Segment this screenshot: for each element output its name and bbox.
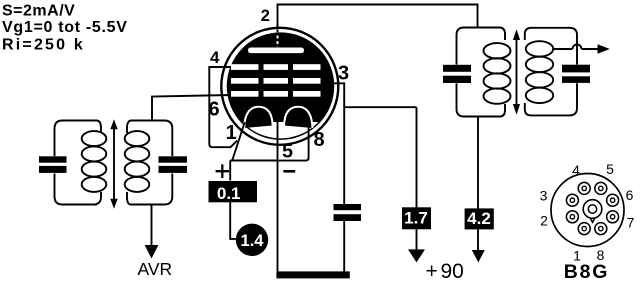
wire transformer secondary to grid (152, 95, 231, 122)
IF transformer T2 right loop (525, 28, 577, 116)
svg-text:Ri=250 k: Ri=250 k (2, 37, 85, 54)
anode lead dashed (white on disc) (277, 36, 279, 48)
pin 8 lead (278, 124, 309, 161)
capacitor C1 (39, 156, 67, 162)
tube anode plate bar (248, 48, 304, 54)
voltage box 4.2 (465, 208, 494, 229)
socket pin 5 (595, 182, 607, 194)
svg-text:2: 2 (261, 7, 270, 25)
current meter 1.4 (236, 224, 268, 256)
arrow 1.7 down (416, 229, 418, 251)
wire anode pin2 to top rail to right transformer (278, 5, 478, 29)
plus sign (216, 164, 229, 178)
output arrow wire with hop (553, 45, 598, 50)
svg-text:5: 5 (606, 161, 614, 177)
capacitor C2 (159, 156, 188, 162)
voltage box 0.1 (209, 181, 258, 202)
tube grid row 3 (231, 91, 259, 97)
svg-text:7: 7 (627, 215, 635, 231)
svg-text:1: 1 (226, 122, 237, 144)
wire branch to 1.7 (344, 107, 416, 207)
coil L1 (82, 131, 107, 146)
socket pin 6 (607, 194, 619, 206)
coil L3 (484, 43, 511, 58)
socket pin 7 (607, 211, 619, 223)
capacitor C4 (443, 65, 471, 72)
IF transformer T1 right loop (127, 121, 172, 205)
cathode arch left (244, 107, 272, 128)
anode lead dashed (outside disc) (277, 24, 279, 35)
svg-text:3: 3 (540, 188, 548, 204)
voltage box 1.7 (402, 207, 431, 229)
socket pin 2 (566, 211, 578, 223)
cathode arch right (284, 107, 312, 128)
svg-text:0.1: 0.1 (217, 184, 241, 203)
pin 1 lead (232, 122, 245, 161)
svg-text:4.2: 4.2 (467, 209, 491, 228)
wire cathode horizontal (230, 160, 278, 162)
tube cathode white band (242, 122, 320, 139)
coil L4 (526, 41, 553, 56)
minus sign (283, 170, 295, 173)
ground rail (276, 271, 349, 278)
arrow 4.2 down (477, 229, 479, 252)
svg-text:Vg1=0 tot -5.5V: Vg1=0 tot -5.5V (2, 19, 128, 36)
tube grid row 2 (231, 78, 259, 84)
coupling arrow T1 (113, 129, 115, 199)
svg-text:B8G: B8G (564, 261, 610, 283)
B8G socket outline (551, 174, 624, 247)
wire capacitor to rail (343, 221, 345, 273)
svg-text:1.4: 1.4 (241, 232, 265, 250)
socket pin 8 (595, 223, 607, 235)
wire box to current meter (230, 200, 237, 239)
IF transformer T1 left loop (55, 121, 102, 205)
coil L2 (125, 131, 150, 146)
svg-text:6: 6 (626, 187, 634, 203)
svg-text:5: 5 (282, 140, 293, 162)
svg-text:S=2mA/V: S=2mA/V (2, 3, 75, 20)
coupling arrow T2 (516, 39, 518, 105)
svg-text:1.7: 1.7 (404, 209, 428, 228)
tube grid row 1 (231, 64, 259, 70)
svg-text:4: 4 (210, 48, 220, 67)
wire to voltage box 0.1 (229, 161, 231, 181)
socket pin 3 (566, 194, 578, 206)
svg-text:4: 4 (572, 162, 580, 178)
IF transformer T2 left loop (457, 28, 506, 117)
svg-text:3: 3 (338, 62, 349, 84)
svg-text:8: 8 (313, 129, 324, 151)
wire 4.2 from transformer (477, 117, 479, 209)
svg-text:AVR: AVR (138, 259, 173, 279)
wire pin3 screen grid (326, 83, 344, 204)
tube U1 inner electrode disc (228, 33, 334, 139)
arrow to AVR (151, 205, 153, 247)
tube inner disc outline (228, 33, 334, 139)
pin 5 lead and cathode down wire (277, 122, 279, 273)
svg-text:90: 90 (441, 260, 464, 283)
capacitor C5 (562, 65, 590, 73)
socket pin 1 (578, 223, 590, 235)
svg-text:2: 2 (540, 213, 548, 229)
wire grid bracket pins 4/6 (209, 67, 237, 147)
bypass capacitor (334, 204, 362, 210)
svg-text:6: 6 (208, 98, 219, 120)
socket spigot (583, 200, 602, 219)
svg-text:+: + (426, 260, 438, 283)
tube U1 envelope outer circle (221, 28, 338, 145)
socket pin 4 (578, 182, 590, 194)
